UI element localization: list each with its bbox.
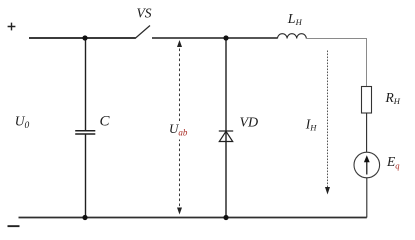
svg-text:Eq: Eq: [386, 154, 400, 171]
current arrow IH: [325, 51, 330, 195]
svg-text:RH: RH: [385, 90, 401, 106]
label Uab: [168, 121, 189, 140]
diode VD: [219, 131, 233, 142]
node junction bottom-left: [82, 215, 87, 220]
terminal - (U0 negative): [8, 225, 20, 227]
wire resistor to source: [366, 113, 368, 152]
node junction top-left: [82, 35, 87, 40]
svg-text:VS: VS: [137, 6, 152, 21]
voltage arrow Uab (dashed, double-headed): [177, 40, 182, 215]
wire diode branch: [225, 38, 227, 218]
current source Eq arrow: [366, 158, 368, 175]
svg-text:LH: LH: [287, 12, 303, 27]
wire bottom rail: [19, 217, 367, 219]
wire top-right segment: [306, 39, 366, 87]
wire source to bottom: [366, 178, 368, 218]
wire top-middle segment: [152, 37, 278, 39]
switch VS blade: [135, 26, 150, 39]
inductor LH: [278, 34, 307, 39]
wire capacitor branch lower: [85, 134, 87, 218]
svg-text:U0: U0: [15, 114, 30, 132]
current source Eq circle: [354, 152, 380, 178]
wire capacitor branch upper: [85, 38, 87, 131]
resistor RH: [362, 87, 372, 114]
terminal + (U0 positive): [8, 23, 16, 31]
svg-text:C: C: [100, 114, 111, 130]
capacitor C plates: [75, 130, 95, 132]
node junction bottom of diode: [223, 215, 228, 220]
wire top-left segment: [29, 37, 136, 39]
node junction top-right of diode: [223, 35, 228, 40]
svg-text:VD: VD: [240, 116, 259, 131]
svg-text:IH: IH: [305, 117, 318, 133]
